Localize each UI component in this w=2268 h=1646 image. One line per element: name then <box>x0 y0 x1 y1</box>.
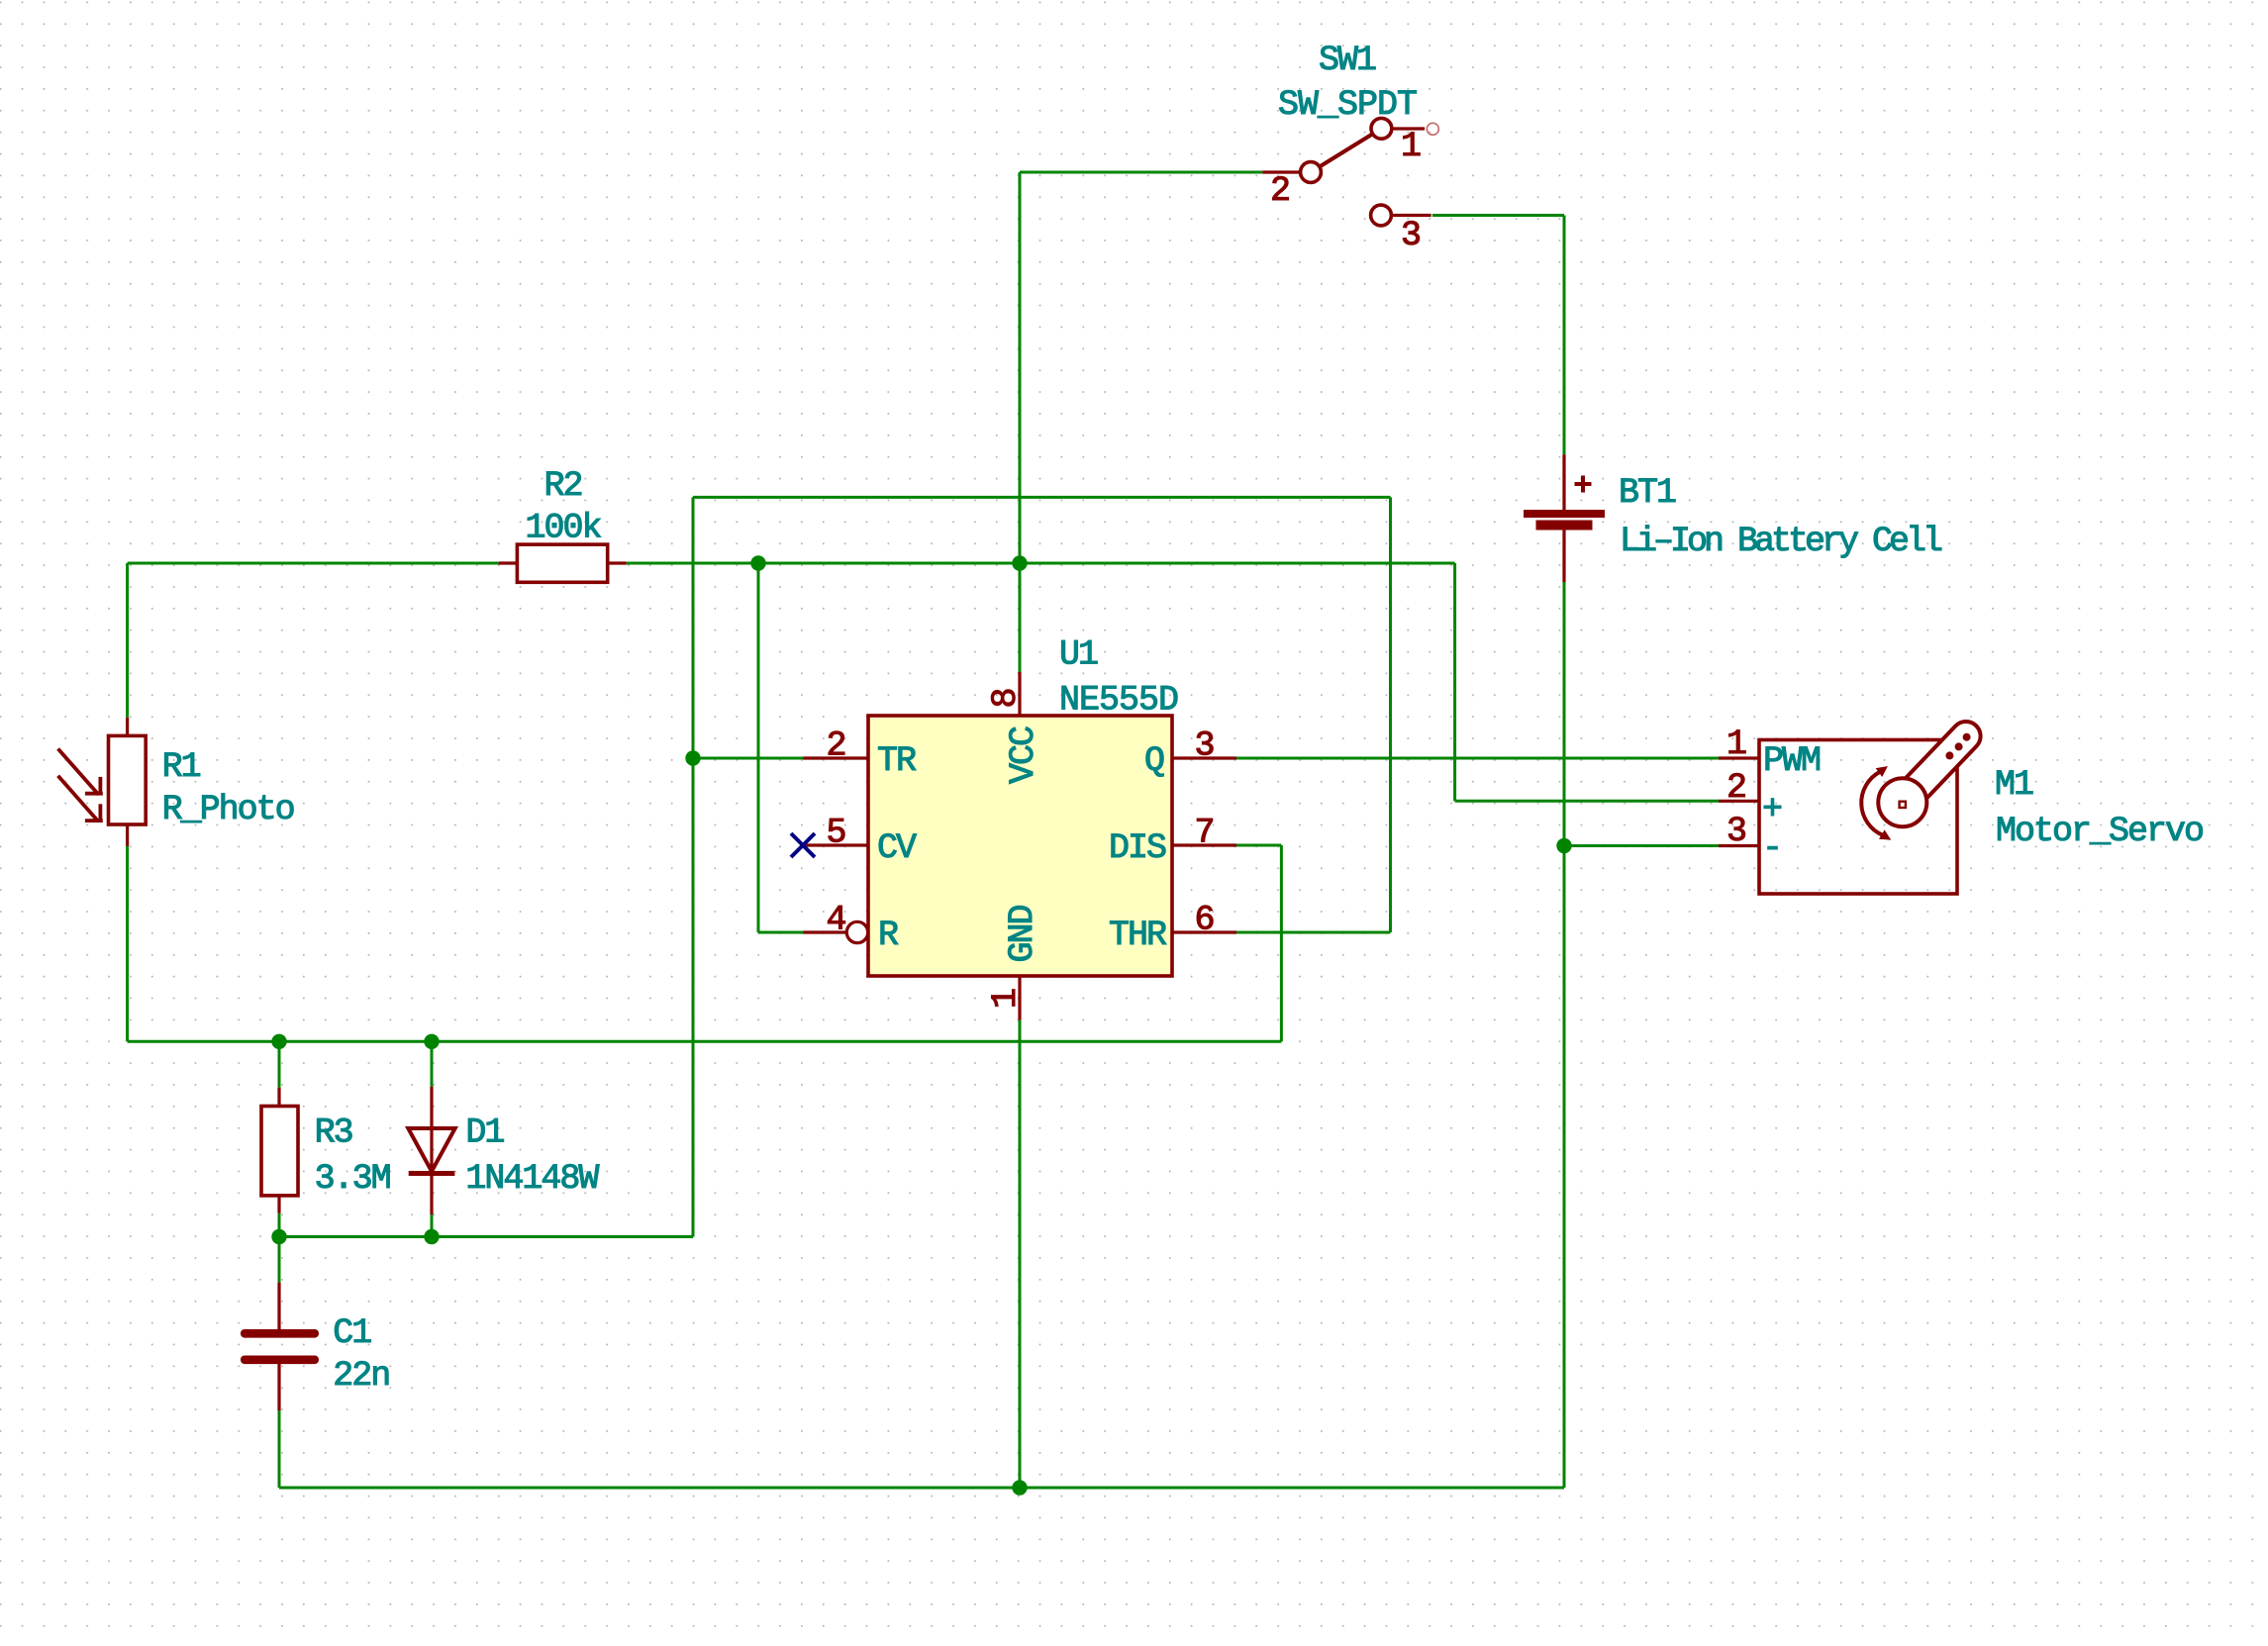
svg-text:D1: D1 <box>465 1113 504 1153</box>
junction I (battery minus / servo minus) <box>1556 838 1571 853</box>
wire bottom GND horizontal <box>279 1487 1564 1490</box>
junction G (D1 bottom) <box>424 1229 439 1244</box>
wire D1 bottom stub wire <box>431 1214 434 1236</box>
junction F (R3 bottom) <box>271 1229 286 1244</box>
battery BT1 <box>1524 454 1605 582</box>
wire TR/THR net vertical x700 <box>692 497 695 1236</box>
svg-text:3.3M: 3.3M <box>315 1159 390 1199</box>
BT1 plus sign <box>1575 476 1592 493</box>
svg-text:C1: C1 <box>333 1313 371 1353</box>
svg-text:7: 7 <box>1194 814 1213 853</box>
svg-text:SW1: SW1 <box>1319 41 1376 80</box>
svg-text:4: 4 <box>826 901 845 940</box>
svg-text:2: 2 <box>1270 171 1289 211</box>
wire servo plus horizontal <box>1455 800 1719 803</box>
wire THR vertical x1404 <box>1389 497 1392 932</box>
wire VCC vertical x1030 <box>1019 172 1022 672</box>
svg-text:1: 1 <box>1726 725 1746 764</box>
wire switch common horizontal <box>1020 171 1262 174</box>
svg-text:Q: Q <box>1144 741 1164 781</box>
U1 pin 6 THR <box>1172 930 1236 933</box>
no-connect X on pin 5 <box>791 833 815 857</box>
svg-text:R_Photo: R_Photo <box>162 790 294 829</box>
svg-text:VCC: VCC <box>1004 726 1043 784</box>
wire DIS net horizontal y1052 <box>128 1040 1282 1043</box>
svg-text:BT1: BT1 <box>1619 473 1676 513</box>
junction C (TR tap) <box>685 750 700 765</box>
M1 pin 3 minus <box>1719 844 1759 847</box>
wire DIS vertical x1294 <box>1280 845 1283 1041</box>
wire Q output horizontal <box>1236 757 1719 760</box>
svg-text:2: 2 <box>1726 768 1745 808</box>
wire R3 top stub wire <box>278 1041 281 1087</box>
wire reset vertical x766 <box>757 563 760 932</box>
svg-text:1N4148W: 1N4148W <box>465 1159 599 1199</box>
svg-text:SW_SPDT: SW_SPDT <box>1278 85 1417 125</box>
resistor R2 <box>499 544 627 582</box>
svg-text:PWM: PWM <box>1763 741 1820 781</box>
wire main horizontal left (VCC net) <box>128 562 499 565</box>
svg-text:R3: R3 <box>315 1113 352 1153</box>
svg-text:3: 3 <box>1194 726 1213 766</box>
wire R1 bottom vertical <box>126 846 129 1041</box>
wire D1 top stub wire <box>431 1041 434 1087</box>
svg-text:Motor_Servo: Motor_Servo <box>1996 812 2203 851</box>
svg-text:U1: U1 <box>1059 635 1098 675</box>
svg-text:100k: 100k <box>525 509 601 548</box>
wire THR horizontal <box>1236 931 1391 934</box>
svg-text:Li–Ion Battery Cell: Li–Ion Battery Cell <box>1620 522 1942 561</box>
svg-text:8: 8 <box>986 689 1026 708</box>
motor M1 servo body <box>1759 740 1957 895</box>
wire battery top vertical <box>1563 216 1566 455</box>
wire R1 top vertical <box>126 563 129 718</box>
M1 servo horn (white filled) <box>1892 722 1980 813</box>
M1 pin 1 PWM <box>1719 756 1759 759</box>
SW1 unconnected pin 1 end circle <box>1427 123 1438 135</box>
svg-text:+: + <box>1762 790 1781 829</box>
M1 shaft center square <box>1900 802 1906 808</box>
svg-text:3: 3 <box>1726 812 1745 851</box>
wire C1 top wire <box>278 1237 281 1283</box>
svg-text:22n: 22n <box>333 1356 389 1396</box>
diode D1 <box>408 1087 454 1214</box>
wire main horizontal right (VCC net) <box>627 562 1455 565</box>
svg-text:6: 6 <box>1194 901 1213 940</box>
switch SW1 SPDT <box>1262 118 1430 226</box>
svg-text:CV: CV <box>877 828 917 868</box>
wire battery bottom vertical <box>1563 582 1566 1488</box>
svg-text:2: 2 <box>826 726 844 766</box>
wire switch throw 3 horizontal <box>1432 214 1564 217</box>
capacitor C1 <box>241 1283 319 1410</box>
resistor R3 <box>261 1088 298 1213</box>
IC U1 NE555D body <box>868 716 1172 976</box>
svg-text:-: - <box>1762 828 1781 868</box>
U1 pin 2 TR <box>804 756 869 759</box>
svg-text:5: 5 <box>826 814 844 853</box>
U1 pin 8 VCC <box>1018 672 1021 716</box>
U1 pin 7 DIS <box>1172 843 1236 846</box>
junction A (x766 on main) <box>750 555 765 570</box>
svg-text:THR: THR <box>1109 916 1167 955</box>
svg-text:M1: M1 <box>1995 765 2033 805</box>
svg-text:TR: TR <box>877 741 917 781</box>
svg-text:R2: R2 <box>543 466 581 506</box>
svg-text:R: R <box>878 916 899 955</box>
M1 rotation arrows <box>1861 772 1883 835</box>
M1 pin 2 plus <box>1719 800 1759 803</box>
wire GND vertical x1030 <box>1019 1020 1022 1488</box>
junction E (D1 top) <box>424 1034 439 1049</box>
svg-text:1: 1 <box>1401 127 1421 166</box>
svg-text:GND: GND <box>1003 906 1042 963</box>
wire lower horizontal y1249 (cap net) <box>279 1235 693 1238</box>
wire servo plus drop x1469 <box>1453 563 1456 801</box>
junction B (VCC on main) <box>1012 555 1027 570</box>
wire C1 bottom wire <box>278 1410 281 1488</box>
resistor R1 (photo) <box>109 718 147 846</box>
wire TR horizontal <box>693 757 804 760</box>
svg-text:1: 1 <box>986 989 1026 1009</box>
junction H (GND bottom) <box>1012 1480 1027 1495</box>
M1 horn screw dots <box>1963 733 1971 741</box>
U1 pin 4 R (with bubble) <box>804 921 868 942</box>
M1 servo shaft circle <box>1878 778 1926 826</box>
wire reset horizontal to pin 4 <box>758 931 804 934</box>
U1 pin 1 GND <box>1018 976 1021 1020</box>
wire DIS horizontal <box>1236 844 1281 847</box>
svg-text:R1: R1 <box>162 747 201 787</box>
U1 pin 3 Q <box>1172 756 1236 759</box>
U1 pin 5 CV <box>804 843 869 846</box>
svg-text:3: 3 <box>1401 216 1420 255</box>
R1 photo arrow 2 <box>58 776 103 822</box>
wire R3 bottom stub wire <box>278 1213 281 1237</box>
wire TR/THR net horizontal y502 <box>693 496 1391 499</box>
svg-text:NE555D: NE555D <box>1059 681 1178 721</box>
wire servo minus horizontal <box>1564 844 1719 847</box>
R1 photo arrow 1 <box>58 749 103 795</box>
junction D (R3 top) <box>271 1034 286 1049</box>
svg-text:DIS: DIS <box>1109 828 1166 868</box>
